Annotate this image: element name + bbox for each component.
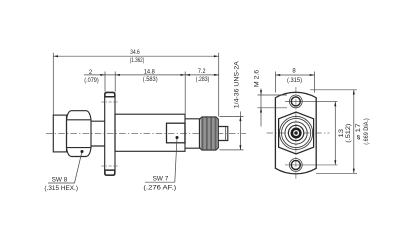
hex coupling nut SW8 — [67, 111, 92, 157]
threaded section outline — [200, 117, 219, 150]
left interface sleeve — [53, 115, 66, 152]
svg-text:34.6: 34.6 — [130, 50, 140, 56]
arrowheads front view — [260, 74, 355, 173]
8 dim arrows — [276, 74, 281, 76]
1/4-36 arrows — [239, 116, 241, 121]
SW7 leader dot — [176, 136, 179, 139]
connector body outlines — [53, 92, 228, 175]
flange hole axes (side view) — [101, 102, 117, 166]
svg-text:(.283): (.283) — [196, 77, 210, 83]
7.2 right arrow — [214, 74, 219, 76]
flange (side view) — [105, 92, 115, 175]
dia 17 extension lines — [310, 90, 357, 174]
flange outline (front view, racetrack) — [275, 92, 316, 174]
concentric circles of coaxial interface — [280, 116, 313, 149]
34.6 arrows — [53, 55, 58, 57]
hex SW7 (front view, vertex up) — [279, 112, 314, 154]
main body — [115, 114, 185, 151]
hole centerlines / extension lines to 13 dim — [285, 102, 338, 165]
second dimension row line — [84, 74, 219, 76]
front view centerlines — [267, 87, 330, 179]
centerline (side view axis) — [46, 133, 246, 135]
hex flat lines — [67, 120, 92, 148]
svg-text:14.8: 14.8 — [144, 69, 156, 75]
SW8 leader dot — [81, 150, 84, 153]
SW7 leader — [145, 138, 177, 183]
13 dim line — [334, 102, 336, 165]
M2.6 extension lines — [258, 95, 288, 108]
svg-text:7.2: 7.2 — [198, 69, 206, 75]
svg-text:(.669 DIA.): (.669 DIA.) — [364, 118, 370, 145]
M2.6 outside arrows — [260, 90, 262, 95]
svg-text:(.583): (.583) — [143, 77, 158, 83]
svg-text:SW 8: SW 8 — [52, 178, 68, 184]
dia 17 dim line — [353, 90, 355, 174]
8 dim line — [276, 74, 315, 76]
extension line body right edge — [184, 72, 186, 114]
mounting hole top (M2.6) — [289, 95, 302, 108]
M2.6 dim vertical line — [260, 89, 262, 127]
34.6 dimension line — [53, 55, 218, 57]
svg-text:(.512): (.512) — [346, 124, 352, 143]
extension line left (merges with part edge) — [52, 53, 54, 115]
13 dim arrows — [334, 102, 336, 107]
svg-text:(.315): (.315) — [287, 78, 302, 84]
mounting hole bottom (M2.6) — [289, 159, 302, 172]
svg-text:13: 13 — [339, 128, 345, 137]
svg-text:(.276 AF.): (.276 AF.) — [143, 185, 176, 191]
svg-text:SW 7: SW 7 — [153, 177, 169, 183]
svg-text:(1.362): (1.362) — [130, 58, 145, 64]
thread hatching — [201, 117, 217, 150]
SW8 leader — [48, 152, 82, 184]
dia 17 arrows — [353, 90, 355, 95]
arrowheads side view — [53, 55, 241, 150]
svg-text:1/4-36 UNS-2A: 1/4-36 UNS-2A — [234, 61, 240, 108]
14.8 right arrow + 7.2 left arrow at body edge — [181, 74, 186, 76]
8 extension lines — [276, 72, 315, 93]
svg-text:(.079): (.079) — [84, 78, 99, 84]
end piece (interface pin sleeve) — [218, 127, 228, 141]
1/4-36 dimension line — [239, 116, 241, 149]
extension line right end of threads — [218, 53, 220, 117]
post-body cylinder — [185, 119, 200, 148]
svg-text:M 2.6: M 2.6 — [255, 69, 261, 87]
horizontal centerline — [267, 132, 330, 134]
svg-text:(.315 HEX.): (.315 HEX.) — [44, 186, 78, 192]
svg-text:⌀ 17: ⌀ 17 — [356, 122, 362, 139]
vertical centerline — [295, 87, 297, 179]
svg-text:8: 8 — [292, 69, 296, 75]
2 dim outside arrows — [100, 74, 105, 76]
center pin — [294, 131, 297, 134]
extension lines flange faces — [105, 72, 115, 92]
SW7 section — [167, 123, 186, 143]
neck between nut and flange — [91, 121, 105, 146]
1/4-36 thread dia extension lines — [220, 116, 244, 149]
